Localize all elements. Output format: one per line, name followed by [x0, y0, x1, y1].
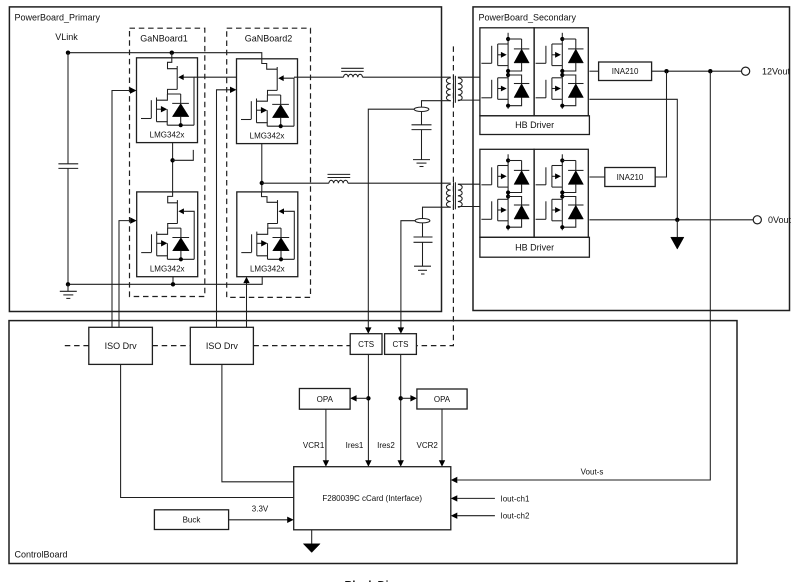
arrowhead Iout-ch2 into cCard: [451, 513, 458, 519]
capacitor C3 (T2 snubber): [414, 237, 433, 242]
wire DC bus vertical: [67, 53, 69, 164]
wire U1 source to U3 tie (y77.2): [194, 76, 237, 78]
wire Buck 3.3V to cCard: [229, 519, 288, 521]
wire gate drive to U3 (from ISO Drv2): [217, 90, 231, 327]
wire bridge2 output to INA210 U6: [589, 176, 604, 178]
svg-text:INA210: INA210: [617, 173, 644, 182]
block F280039C cCard: [294, 467, 451, 530]
mosfet cell Q7/Q8 (bridge2 right half-bridge): [534, 149, 588, 237]
node CTS1 output tap: [366, 396, 370, 400]
svg-text:Iout-ch2: Iout-ch2: [501, 512, 530, 521]
wire ISO Drv2 output to cCard: [222, 364, 294, 481]
arrowhead into OPA2: [410, 395, 417, 401]
transformer T1: [446, 76, 462, 103]
block OPA 2: [417, 389, 467, 409]
svg-text:ISO Drv: ISO Drv: [105, 341, 138, 351]
wire OPA1 output to cCard: [325, 409, 327, 461]
module GaNBoard1 (dashed): [130, 28, 205, 296]
wire Vout sense: [457, 71, 710, 480]
wire gate drive to U2 (from ISO Drv1): [119, 221, 130, 328]
block ISO Drv 1: [89, 327, 153, 364]
svg-text:VLink: VLink: [55, 32, 78, 42]
ground sensor chain 1: [413, 160, 430, 167]
wire T1 secondary top to bridge1: [458, 76, 480, 78]
wire DC bus lower: [67, 168, 69, 284]
wire L1 to transformer T1: [363, 76, 451, 78]
block HB Driver (bridge2): [480, 237, 590, 257]
transformer T2: [446, 182, 462, 209]
block Buck: [154, 510, 228, 530]
arrowhead CTS1 into cCard: [365, 460, 371, 466]
arrowhead 3.3V into cCard: [287, 517, 294, 523]
block INA210 U5: [599, 62, 652, 81]
wire Iout-ch2: [457, 515, 495, 517]
wire VLink rail: [68, 53, 262, 59]
wire CT1 sense line to CTS1: [368, 109, 414, 330]
arrowhead into U3 gate: [230, 87, 237, 93]
wire C3 to ground: [422, 242, 424, 266]
svg-text:3.3V: 3.3V: [252, 505, 269, 514]
node 12V rail junction 1: [664, 69, 668, 73]
wire 0V rail: [589, 219, 753, 221]
svg-text:Buck: Buck: [183, 516, 202, 525]
module GaNBoard2 (dashed): [227, 28, 311, 297]
current sensor CT2 (ellipse): [415, 219, 430, 223]
node U1 drain tap: [170, 51, 174, 55]
arrowhead into OPA1: [350, 395, 357, 401]
arrowhead CTS2 into cCard: [398, 460, 404, 466]
gan module U3 LMG342x (GaNBoard2 high-side): [237, 59, 298, 144]
wire U1 drain stem: [171, 53, 173, 58]
ground primary DC-link: [60, 284, 77, 298]
svg-text:PowerBoard_Primary: PowerBoard_Primary: [15, 13, 101, 23]
svg-text:GaNBoard1: GaNBoard1: [140, 33, 188, 43]
svg-text:F280039C cCard (Interface): F280039C cCard (Interface): [322, 494, 422, 503]
block CTS 2: [385, 334, 417, 355]
arrowhead into U4 gate (up): [243, 277, 249, 283]
wire CT2 sense line to CTS2: [401, 221, 415, 331]
mosfet cell Q3/Q4 (bridge1 right half-bridge): [534, 28, 588, 116]
wire phase leg A: U1 source to U2 drain: [172, 143, 174, 192]
inductor L1: [341, 68, 364, 77]
wire 12V rail: [652, 70, 742, 72]
wire ISO Drv1 output to cCard: [121, 364, 294, 497]
wire U2 source to return rail: [172, 277, 174, 285]
wire T2 primary bottom to sensor2: [423, 207, 451, 237]
wire CTS1 output to cCard: [367, 354, 369, 460]
wire CTS2 output to cCard: [400, 354, 402, 460]
node phase B junction: [260, 181, 264, 185]
wire gate drive dashed bus: [65, 345, 350, 347]
board PowerBoard_Primary: [9, 7, 441, 312]
svg-text:GaNBoard2: GaNBoard2: [245, 33, 293, 43]
arrowhead into U1 gate: [130, 87, 137, 93]
ground secondary (arrow): [671, 220, 684, 249]
current sensor CT1 (ellipse): [414, 107, 429, 111]
node CTS2 output tap: [399, 396, 403, 400]
wire phase leg B: U3 source to U4 drain: [261, 144, 263, 192]
wire phase A stub: [173, 150, 194, 160]
arrowhead OPA2 into cCard: [439, 460, 445, 466]
wire gate drive to U1 (from ISO Drv1): [112, 91, 130, 328]
svg-text:VCR2: VCR2: [417, 441, 439, 450]
svg-text:12Vout: 12Vout: [762, 66, 791, 76]
ground cCard (arrow): [303, 530, 320, 553]
svg-text:INA210: INA210: [612, 67, 639, 76]
board PowerBoard_Secondary: [473, 7, 790, 311]
wire U3 phase line to inductor L1: [294, 76, 344, 78]
gan module U4 LMG342x (GaNBoard2 low-side): [237, 192, 298, 277]
ground sensor chain 2: [414, 266, 431, 274]
svg-text:0Vout: 0Vout: [768, 215, 792, 225]
wire L2 to transformer T2: [348, 182, 451, 184]
block ISO Drv 2: [190, 327, 253, 364]
wire T1 primary bottom to sensor1: [422, 101, 451, 125]
wire T2 secondary bottom to bridge2: [458, 206, 480, 208]
arrowhead into U2 gate: [130, 217, 137, 223]
node U2 source on return rail: [171, 282, 175, 286]
svg-text:Ires2: Ires2: [377, 441, 395, 450]
arrowhead Vout-s into cCard: [451, 477, 458, 483]
wire Iout-ch1: [457, 497, 495, 499]
board ControlBoard: [9, 321, 737, 564]
svg-text:Vout-s: Vout-s: [581, 468, 604, 477]
svg-text:HB Driver: HB Driver: [515, 120, 554, 130]
node VLink junction: [66, 51, 70, 55]
arrowhead into CTS1: [365, 327, 371, 333]
mosfet cell Q5/Q6 (bridge2 left half-bridge): [480, 149, 534, 237]
gan module U1 LMG342x (GaNBoard1 high-side): [137, 58, 198, 143]
svg-text:Iout-ch1: Iout-ch1: [501, 494, 530, 503]
node return-rail junction: [66, 282, 70, 286]
arrowhead OPA1 into cCard: [323, 460, 329, 466]
svg-text:CTS: CTS: [393, 340, 409, 349]
wire return rail: [68, 277, 262, 285]
terminal 12Vout: [742, 66, 791, 76]
capacitor C2 (T1 snubber): [412, 125, 432, 130]
arrowhead into CTS2: [398, 327, 404, 333]
svg-text:Ires1: Ires1: [346, 441, 364, 450]
node 0V rail junction: [675, 218, 679, 222]
arrowhead Iout-ch1 into cCard: [451, 495, 458, 501]
svg-text:VCR1: VCR1: [303, 441, 325, 450]
wire phase B to inductor L2: [262, 182, 329, 184]
wire T2 secondary top to bridge2: [458, 183, 480, 185]
wire tap to OPA1: [356, 397, 368, 399]
block OPA 1: [299, 389, 350, 410]
wire gate drive to U4 (from ISO Drv2): [246, 283, 248, 328]
block INA210 U6: [605, 168, 655, 187]
node 12V rail junction 2: [708, 69, 712, 73]
mosfet cell Q1/Q2 (bridge1 left half-bridge): [480, 28, 534, 116]
block CTS 1: [350, 334, 382, 355]
gan module U2 LMG342x (GaNBoard1 low-side): [137, 192, 198, 277]
wire T1 secondary bottom to bridge1: [458, 99, 480, 101]
svg-text:ControlBoard: ControlBoard: [15, 550, 68, 560]
wire C2 to ground: [421, 130, 423, 160]
svg-text:HB Driver: HB Driver: [515, 242, 554, 252]
wire INA210 U6 output to 12V rail: [655, 71, 666, 177]
svg-text:PowerBoard_Secondary: PowerBoard_Secondary: [479, 13, 577, 23]
capacitor C1 (DC link): [58, 164, 78, 169]
wire tap to OPA2: [401, 397, 411, 399]
wire isolation dashed line: [416, 46, 453, 345]
terminal 0Vout: [753, 215, 791, 225]
svg-text:OPA: OPA: [434, 395, 451, 404]
svg-text:ISO Drv: ISO Drv: [206, 341, 239, 351]
block HB Driver (bridge1): [480, 116, 590, 135]
wire bridge1 output to INA210 U5: [589, 70, 598, 72]
svg-text:OPA: OPA: [317, 395, 334, 404]
wire bridge1 negative to 0V rail: [589, 99, 677, 220]
node phase A junction: [170, 158, 174, 162]
inductor L2: [328, 174, 351, 183]
wire OPA2 output to cCard: [441, 409, 443, 461]
svg-text:CTS: CTS: [358, 340, 374, 349]
